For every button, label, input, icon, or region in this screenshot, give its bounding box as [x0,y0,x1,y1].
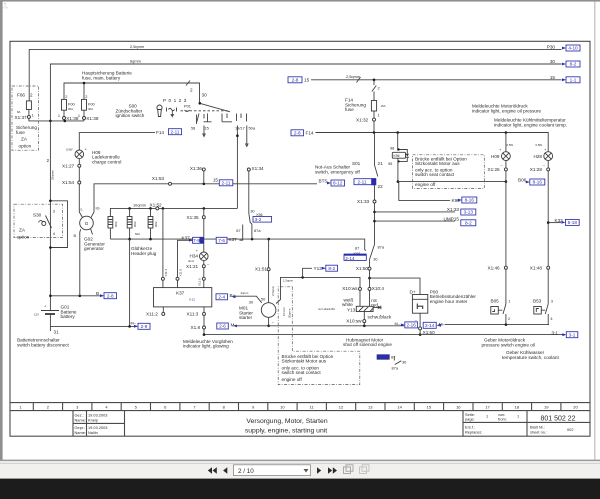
svg-text:1: 1 [486,414,488,419]
svg-text:Header plug: Header plug [131,251,157,256]
wire X1.8 to ground rail [203,329,205,335]
svg-text:7-6: 7-6 [218,238,225,243]
svg-text:P30: P30 [547,44,556,49]
svg-text:ZA: ZA [21,137,28,142]
wire to tag K33 [548,222,561,224]
wire ignition 19/17 drop [236,126,238,209]
svg-text:1: 1 [58,113,60,118]
svg-text:2: 2 [65,94,67,99]
tag contact 2-11 [354,178,383,189]
wire glow bus 10qmm [110,203,237,217]
svg-text:X1:26: X1:26 [488,167,501,172]
terminal X11:3 [187,307,206,317]
temperature switch B53 [533,269,553,324]
svg-text:2,5qmm: 2,5qmm [130,44,144,49]
tag to 4-10 [562,45,580,51]
svg-text:M–: M– [395,321,401,326]
wire M- rail middle [237,325,405,327]
switch S30 battery disconnect [33,209,56,237]
svg-text:K37: K37 [176,291,185,296]
junction [251,238,254,241]
svg-text:F66: F66 [17,93,25,98]
svg-text:2-6: 2-6 [219,324,226,329]
gap under page [0,461,600,463]
svg-text:X1:54: X1:54 [62,180,75,185]
toolbar band [0,463,600,478]
label Hauptsicherung [82,71,132,81]
svg-text:ignition switch: ignition switch [116,113,145,118]
pressure switch B05 [491,269,511,324]
label Geber Motoroeldruck [482,338,535,348]
svg-text:5-18: 5-18 [568,220,578,225]
svg-text:2-14: 2-14 [345,256,355,261]
wire H09 feed [505,133,507,152]
svg-text:2-9: 2-9 [141,324,148,329]
svg-text:2: 2 [30,93,33,98]
option border solenoid [278,287,360,385]
label Meldeleuchte Kuehlmittel [494,118,567,128]
ruler band bottom line [10,410,590,412]
junction [128,238,131,241]
svg-text:1-1: 1-1 [570,78,577,83]
wire X1:35 to H34 [203,219,205,252]
glow plug R02 no3 [148,208,158,239]
svg-text:nur Lübeck BA: nur Lübeck BA [318,307,335,311]
svg-text:B53: B53 [533,298,542,303]
svg-text:X1:50: X1:50 [356,266,369,271]
svg-text:option: option [17,235,30,240]
svg-text:X1:38: X1:38 [86,116,99,121]
terminal X1:34 [247,166,264,213]
svg-text:3-2: 3-2 [255,217,262,222]
tag to 8-2 [461,220,476,226]
wire bus 2,5qmm F66 to P30 [29,44,561,101]
svg-text:X1:46: X1:46 [488,265,501,270]
svg-text:8-2: 8-2 [465,221,472,226]
wire bus 6qmm battery feed [50,59,561,121]
tag contact 3-2 [253,217,272,223]
svg-text:10qmm: 10qmm [133,203,146,208]
svg-text:1,5qmm: 1,5qmm [283,279,294,283]
svg-text:2: 2 [378,86,380,91]
wire to Y13 tag [303,268,312,277]
svg-text:switch, emergency off: switch, emergency off [315,169,361,174]
svg-text:X1:37: X1:37 [15,115,28,120]
option switch S30 box [14,204,63,237]
terminal X1:38 right [83,116,99,121]
svg-text:X1.8: X1.8 [191,325,201,330]
svg-text:30: 30 [202,92,208,97]
page bottom shadow line [0,460,600,462]
svg-text:sheet no.:: sheet no.: [530,430,547,435]
svg-text:7-9: 7-9 [193,238,200,243]
svg-text:15: 15 [205,126,209,131]
wire battery plus rail [29,118,84,121]
tag to 2-8 [100,293,117,299]
svg-text:18: 18 [515,404,520,409]
wire S30 bypass [50,201,67,248]
tag contact 2-14 [344,254,366,261]
svg-text:2: 2 [47,158,50,163]
svg-text:B06: B06 [518,177,527,182]
junction [203,207,206,210]
tag from 2-8 net 15 [288,77,302,83]
wire fuse top rail to ignition 30 [64,81,200,104]
relay K96 coil [388,133,409,182]
tag to 2-9 [134,323,150,329]
svg-text:X1:53: X1:53 [152,176,165,181]
title block page fields [465,412,574,435]
svg-text:F14: F14 [156,130,164,135]
page right edge line [593,2,596,460]
junction [49,200,52,203]
svg-text:X1:52: X1:52 [150,202,163,207]
toolbar window icon 1 [344,465,354,474]
svg-text:M–: M– [131,321,137,326]
svg-text:F14: F14 [306,130,314,135]
svg-text:ZA: ZA [19,228,26,233]
svg-text:temperature switch, coolant: temperature switch, coolant [502,355,559,360]
svg-text:4qmm: 4qmm [241,291,249,295]
junction [149,207,152,210]
svg-text:X11:5: X11:5 [178,269,182,277]
wire X1:27 to X1:54 [78,167,80,181]
svg-text:starter: starter [239,315,253,320]
svg-text:fuse, main, battery: fuse, main, battery [82,75,121,80]
wire M- rail right segment [445,324,549,326]
svg-text:S30: S30 [33,213,42,218]
lamp H09 oil pressure [491,143,513,168]
wire S01 22 to X1:33 [374,185,376,200]
svg-text:Replaces:: Replaces: [465,430,482,435]
wire K96 87 to K37 tag [240,230,243,241]
junction [83,82,86,85]
tag to 8-2 [562,61,580,67]
terminal X11:6 [198,277,206,287]
svg-text:10: 10 [280,404,285,409]
wire X1:28 down to X1:48 [547,171,549,266]
battery G01 [34,304,77,320]
svg-text:X1:27: X1:27 [62,164,75,169]
svg-text:fuse: fuse [16,130,25,135]
svg-text:17: 17 [485,404,490,409]
junction [267,325,270,328]
terminal X1:50 [356,266,371,271]
svg-text:K37: K37 [229,237,238,242]
svg-text:indicator light, engine coolan: indicator light, engine coolant temp. [494,122,567,127]
toolbar window icon 2 [360,465,370,474]
tag to 8-16 [458,197,477,203]
terminal X1:51 [255,239,270,271]
svg-text:page:: page: [465,417,475,422]
wire starter minus [268,317,270,326]
wire battery minus to rail 31 [49,314,51,331]
junction [128,207,131,210]
svg-text:4-10: 4-10 [568,46,578,51]
svg-text:pressure switch engine oil: pressure switch engine oil [482,342,535,347]
junction [397,180,400,183]
svg-text:B: B [96,291,99,296]
svg-text:95: 95 [388,161,392,166]
junction K33 [547,221,550,224]
svg-text:X1:34: X1:34 [252,166,265,171]
terminal X11:2 [146,307,165,317]
wire to tag UMP15 [375,220,456,222]
terminal X1:60 [419,327,436,335]
svg-text:X1:51: X1:51 [255,267,268,272]
svg-text:Kneip: Kneip [88,418,98,423]
svg-text:22: 22 [378,184,384,189]
svg-text:generator: generator [84,246,104,251]
svg-text:5-12: 5-12 [189,298,195,302]
svg-text:X1:36: X1:36 [190,166,203,171]
wire X1:21 to X11:6 [203,268,205,278]
svg-text:50a: 50a [249,126,256,131]
tag from 2-14 M- [423,322,445,328]
terminal X1:52 [150,202,163,210]
svg-text:15A: 15A [381,104,386,108]
svg-text:option: option [19,144,32,149]
svg-text:87a: 87a [254,228,261,233]
label Gluehkerze [131,246,157,256]
relay K37 [154,288,212,307]
svg-text:X1:35: X1:35 [187,215,200,220]
wire Y13 feed from starter 50 [276,277,360,303]
svg-text:3: 3 [551,298,553,303]
svg-text:X11:4: X11:4 [164,269,168,277]
junction [373,220,376,223]
svg-text:15: 15 [304,77,310,82]
tag to 8-2 [322,265,338,271]
svg-text:2-8: 2-8 [292,78,299,83]
wire starter plus rail [50,295,103,297]
svg-text:1: 1 [517,414,519,419]
terminal X1:26 [488,167,508,172]
svg-text:switch seat contact: switch seat contact [415,172,455,177]
svg-text:X1:32: X1:32 [356,117,369,122]
tag to 2-16 [401,322,418,328]
svg-text:Y13:: Y13: [347,307,357,312]
svg-text:60A: 60A [135,232,140,236]
label Meldeleuchte Motoroeldruck [472,104,542,114]
tag to 5-18 [561,219,579,225]
svg-text:D+: D+ [410,290,416,295]
wire ignition 15 drop [203,126,205,137]
svg-text:P01: P01 [184,103,191,108]
svg-text:R02: R02 [114,221,118,227]
wire K96 95 to tag 8-16 [399,182,450,201]
svg-text:3: 3 [53,209,55,214]
junction [64,120,67,123]
svg-text:19/17: 19/17 [235,126,245,131]
svg-text:2,5qmm: 2,5qmm [346,74,360,79]
junction ignition 30 [199,102,202,105]
svg-text:Y13: Y13 [314,266,323,271]
ruler band top line [10,402,590,404]
relay contact K96 main [354,245,385,262]
terminal X1:36 [190,166,205,184]
svg-text:87: 87 [236,228,240,233]
svg-text:X1:33: X1:33 [357,199,370,204]
tag from 2-11 net 15 [213,178,233,186]
svg-text:0,5W: 0,5W [536,143,543,147]
wire generator IG to bus [91,184,317,218]
tag from 2-8 to F14 bus [291,130,314,136]
svg-text:switch seat contact: switch seat contact [282,370,322,375]
svg-text:2-11: 2-11 [171,129,180,134]
hour meter P00 [410,289,477,327]
svg-text:16mm²: 16mm² [282,307,286,316]
wire H08 to F14 tag [79,133,155,150]
corner specks [3,3,7,8]
wire X1:50 to hour meter D+ [370,270,421,294]
svg-text:8-16: 8-16 [533,180,543,185]
svg-text:87a: 87a [392,365,399,370]
svg-text:2-14: 2-14 [425,323,435,328]
option note box Bruecke K96 [413,155,485,189]
wire X1:54 to generator L [79,184,82,218]
label ZA option [17,228,30,240]
junction [301,276,304,279]
svg-text:98: 98 [390,146,394,151]
wire glow return to battery [129,239,131,326]
svg-text:B: B [74,233,77,238]
svg-text:shut off solenoid engine: shut off solenoid engine [343,342,392,347]
wire to tag X1:33 [375,211,456,213]
terminal X10:4 [368,278,384,291]
svg-text:8A: 8A [17,110,21,114]
tag to 8-16 [526,179,545,185]
svg-text:58: 58 [191,126,195,131]
option note box Bruecke solenoid [282,354,334,382]
svg-text:Name:: Name: [75,430,86,435]
junction [396,131,399,134]
svg-text:X11:3: X11:3 [187,312,199,317]
svg-text:1: 1 [78,113,80,118]
drawing frame [10,41,590,436]
terminal X11:5 [176,269,182,288]
title block drawn/checked entries [75,413,108,435]
junction [373,211,376,214]
terminal X1.8 [191,325,206,330]
svg-text:K96: K96 [394,154,400,158]
junction [203,183,206,186]
junction on bus 15 [373,79,376,82]
svg-text:schw./black: schw./black [368,314,392,319]
svg-text:H09: H09 [491,154,500,159]
tag from 2-4 B+ [216,293,236,300]
wire battery main drop [49,121,51,311]
terminal X1:54 [62,180,81,185]
label Geber Kuehlwasser [502,350,559,360]
svg-text:engine off: engine off [282,377,303,382]
svg-text:indicator light, engine oil pr: indicator light, engine oil pressure [472,108,542,113]
svg-text:X1:33: X1:33 [447,207,460,212]
label Sicherung fuse ZA option [16,125,37,149]
wire X1:33 down to K96 contact [374,203,376,245]
svg-text:Versorgung, Motor, Starten: Versorgung, Motor, Starten [246,418,327,425]
svg-text:2-8: 2-8 [107,293,114,298]
svg-text:12V: 12V [34,313,39,317]
svg-text:2,5qmm: 2,5qmm [271,285,275,296]
terminal X1:21 [186,264,205,269]
toolbar prev-page button [223,467,227,474]
wire glow ground rail [110,239,364,250]
svg-text:002: 002 [567,427,574,432]
toolbar first-page button [208,467,217,474]
svg-text:X1:48: X1:48 [530,265,543,270]
svg-text:19: 19 [544,404,549,409]
svg-text:engine off: engine off [415,182,436,187]
svg-text:F00: F00 [88,102,96,107]
svg-text:X11:6: X11:6 [198,278,202,286]
ignition switch S00 [116,92,256,130]
svg-text:Sitzkontakt Motor aus: Sitzkontakt Motor aus [415,161,460,166]
svg-text:Sitzkontakt Motor aus: Sitzkontakt Motor aus [282,359,327,364]
svg-text:2-16: 2-16 [407,323,417,328]
junction [49,246,52,249]
ruler numbers [19,404,578,409]
wire lamp feed bus [316,133,549,152]
lamp H08 charge control [47,147,122,165]
tag to 3-13 [461,209,476,215]
junction [49,120,52,123]
svg-text:Nallin: Nallin [88,430,98,435]
svg-text:0,5W: 0,5W [507,143,514,147]
junction [49,295,52,298]
svg-text:8-2: 8-2 [328,266,335,271]
svg-text:6qmm: 6qmm [130,59,141,64]
tag to 7-9 [189,237,203,243]
svg-text:X10:sw: X10:sw [346,319,362,324]
svg-text:from:: from: [498,417,507,422]
glow plug R02 no2 [127,208,140,239]
terminal X1:28 [530,167,550,172]
terminal X1:37 [15,115,31,120]
lamp H28 coolant temp [533,143,552,168]
svg-text:31: 31 [54,330,60,335]
toolbar next-page button [317,467,321,474]
wire X11:4 to relay [162,208,164,277]
terminal X1:53 [152,176,172,185]
svg-text:IG: IG [96,206,100,211]
svg-text:R02: R02 [154,221,158,227]
wire ignition 50a drop [246,126,248,147]
svg-text:charge control: charge control [92,159,121,164]
svg-text:X11:2: X11:2 [146,312,158,317]
svg-text:30A: 30A [68,107,73,111]
wire contact to X1:50 [369,259,371,267]
svg-text:1: 1 [32,112,34,117]
svg-text:12: 12 [339,404,344,409]
svg-text:K37: K37 [182,235,191,240]
terminal X1:46 [488,265,508,270]
terminal X1:33 [357,199,376,204]
viewer bottom dark bar [0,479,600,499]
relay fragment 87 30 [377,355,407,371]
svg-text:2: 2 [508,316,510,321]
wire H08 to X1:27 [78,159,80,165]
junction [162,207,165,210]
tag to 2-11 [169,129,182,135]
wire tag to X11:5 [178,240,193,277]
svg-text:87: 87 [355,246,359,251]
svg-text:G: G [85,221,89,226]
fuse F00 left [58,94,76,118]
svg-text:X1:28: X1:28 [530,167,543,172]
label Hubmagnet [343,337,392,347]
terminal X1:35 [187,215,206,220]
